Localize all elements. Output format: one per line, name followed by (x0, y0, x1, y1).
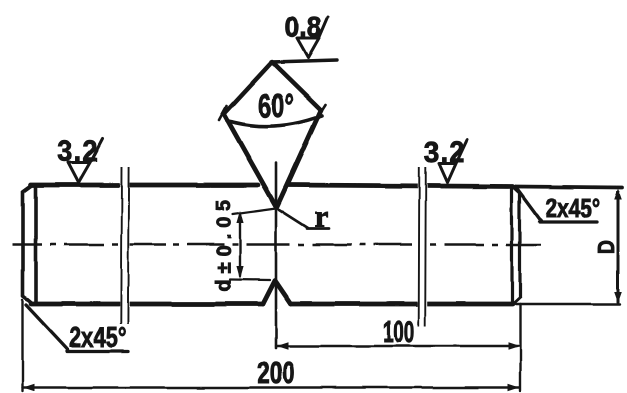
d dimension line (239, 215, 241, 276)
top V-notch sides (tool flanks) (224, 110, 321, 208)
100 dimension line (276, 345, 520, 347)
tool top horizontal line (271, 60, 337, 62)
shaft bottom edge (31, 302, 513, 307)
D dimension bottom extension (516, 303, 620, 305)
shaft left end face and chamfer (23, 186, 36, 304)
svg-text:D: D (592, 240, 620, 254)
svg-text:r: r (315, 199, 329, 234)
svg-text:3.2: 3.2 (57, 135, 99, 169)
d dimension extension lines (230, 208, 276, 280)
D dimension arrows (614, 189, 622, 303)
tool upper sides (diamond) (224, 62, 321, 114)
svg-text:200: 200 (257, 356, 294, 390)
2x45 leader top right (516, 187, 597, 223)
svg-text:3.2: 3.2 (424, 136, 466, 170)
left break lines (120, 164, 130, 326)
svg-text:d±0.05: d±0.05 (214, 193, 236, 291)
svg-text:2x45°: 2x45° (546, 194, 600, 224)
D dimension top extension (516, 187, 622, 188)
bottom V-notch (263, 281, 291, 305)
roughness symbol 3.2 (left) (68, 139, 103, 183)
100 dimension arrows (277, 342, 520, 350)
shaft right end face and chamfer (512, 187, 520, 305)
roughness symbol 0.8 (top) (297, 17, 328, 58)
tick at tool right vertex (318, 105, 326, 118)
200 dimension line (23, 386, 521, 388)
d dimension arrows (236, 211, 243, 280)
200 dimension arrows (23, 384, 520, 392)
svg-text:60°: 60° (259, 88, 294, 125)
centerline (shaft axis, dash-dot) (12, 243, 541, 246)
200 dimension left extension (21, 300, 23, 391)
notch axis vertical line (275, 163, 278, 348)
r leader (279, 210, 329, 229)
2x45 leader bottom left (26, 305, 128, 352)
60-degree angle arc (227, 116, 322, 127)
roughness symbol 3.2 (right) (439, 140, 467, 183)
shaft top edge (31, 185, 513, 187)
right break lines (418, 155, 427, 328)
svg-text:100: 100 (383, 316, 415, 350)
svg-text:0.8: 0.8 (285, 11, 322, 43)
tick at tool left vertex (219, 106, 227, 120)
D dimension line (617, 192, 620, 302)
right extension line for 100/200 (519, 304, 521, 391)
svg-text:2x45°: 2x45° (69, 322, 126, 354)
